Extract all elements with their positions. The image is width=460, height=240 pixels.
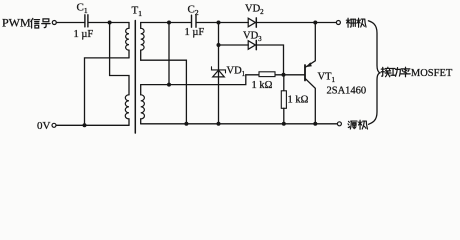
transformer T1 primary lower winding: [125, 95, 129, 119]
transformer T1 secondary lower winding: [140, 85, 142, 95]
wire winding link to base resistor: [141, 75, 246, 85]
node zener on rail: [217, 122, 221, 126]
resistor 1k (base-emitter shunt): [281, 91, 286, 109]
node primary tap junction: [108, 21, 112, 25]
node base network junction: [282, 73, 286, 77]
terminal gate: [336, 21, 340, 25]
wire C2 to diodes node: [196, 22, 248, 24]
wire base row: [246, 74, 305, 76]
node after C2: [217, 21, 221, 25]
svg-text:C2: C2: [188, 4, 199, 18]
svg-text:VD1: VD1: [227, 66, 246, 79]
svg-text:0V: 0V: [37, 120, 51, 132]
node C2 left tap: [167, 21, 171, 25]
transformer T1 primary upper winding: [128, 23, 130, 29]
diode VD2: [248, 18, 255, 27]
node emitter junction: [313, 21, 317, 25]
svg-text:2SA1460: 2SA1460: [327, 86, 367, 97]
wire primary parallel tap (down, right to lower primary winding): [110, 23, 129, 95]
label PWM信号: [2, 16, 50, 30]
wire primary upper winding return to 0V: [85, 58, 130, 125]
transistor VT1 collector: [305, 78, 315, 124]
transistor VT1 emitter: [305, 23, 315, 68]
wire source rail: [141, 123, 338, 125]
wire zener branch vertical: [218, 23, 220, 124]
wire 0V rail: [56, 124, 129, 126]
svg-text:1 kΩ: 1 kΩ: [288, 95, 309, 106]
terminal 0V: [52, 123, 56, 127]
label 源极: [348, 120, 368, 129]
zener diode VD1: [213, 70, 225, 77]
svg-text:1 kΩ: 1 kΩ: [252, 80, 273, 91]
terminal PWM input: [52, 21, 56, 25]
svg-text:T1: T1: [132, 5, 143, 19]
wire vertical resistor to source rail: [283, 108, 285, 124]
node secondary return on rail: [184, 122, 188, 126]
transistor VT1 base bar: [304, 65, 306, 81]
terminal source: [337, 122, 341, 126]
wire C1 to primary top: [88, 22, 129, 24]
svg-text:VD2: VD2: [245, 4, 264, 17]
label 接功率MOSFET: [381, 67, 453, 79]
node VD3 branch: [217, 43, 221, 47]
diode VD3: [248, 41, 255, 50]
wire secondary lower tap vertical: [168, 23, 170, 85]
node lower tap on winding link: [167, 83, 171, 87]
svg-text:PWM: PWM: [2, 16, 31, 30]
wire VD3 row: [219, 44, 249, 46]
wire secondary upper winding bottom to source rail: [141, 60, 187, 124]
node 0V rail junction: [83, 123, 87, 127]
svg-text:1 µF: 1 µF: [74, 29, 94, 40]
node resistor on source rail: [282, 122, 286, 126]
wire secondary top to C2: [141, 22, 192, 24]
svg-text:C1: C1: [77, 2, 88, 16]
wire PWM terminal to C1: [56, 22, 84, 24]
svg-text:1 µF: 1 µF: [185, 27, 205, 38]
wire to vertical resistor: [283, 75, 285, 91]
svg-text:VD3: VD3: [243, 30, 262, 43]
capacitor C1: [84, 15, 86, 27]
transformer T1 core: [134, 21, 136, 134]
brace to MOSFET: [368, 21, 380, 125]
capacitor C2: [191, 15, 193, 27]
wire VD3 to base node: [255, 45, 283, 75]
transformer T1 secondary upper winding: [140, 23, 142, 29]
label 栅极: [346, 18, 366, 27]
resistor 1k (base series): [259, 72, 275, 77]
wire VD2 to gate terminal: [255, 22, 336, 24]
node collector on rail: [313, 122, 317, 126]
svg-text:MOSFET: MOSFET: [411, 68, 453, 79]
svg-text:VT1: VT1: [318, 72, 336, 85]
